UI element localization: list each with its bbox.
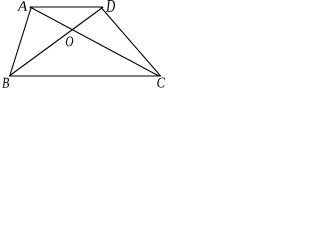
node label O (intersection of diagonals) <box>66 37 73 47</box>
side AB (left edge) <box>10 7 32 76</box>
side AD (top edge of trapezoid) <box>30 6 103 8</box>
vertex label A <box>17 1 27 10</box>
diagonal BD <box>9 7 103 76</box>
side DC (right edge) <box>101 7 161 76</box>
side BC (bottom edge) <box>9 75 161 77</box>
vertex label D <box>106 0 115 12</box>
diagonal AC <box>30 7 159 76</box>
vertex label C <box>157 77 165 87</box>
vertex label B <box>2 78 9 88</box>
